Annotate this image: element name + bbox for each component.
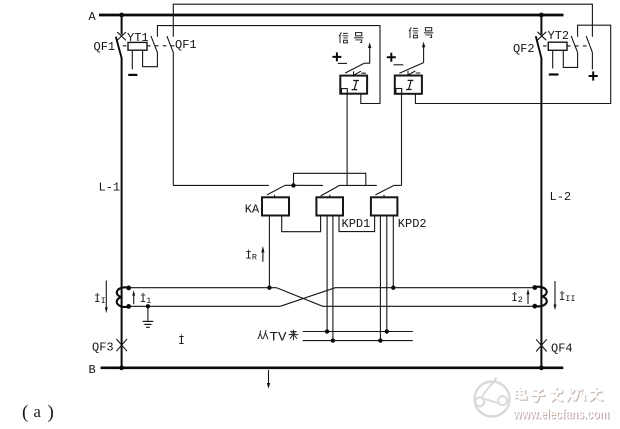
relay contact KPD2 xyxy=(375,185,394,197)
signal relay 1 contact and + terminal xyxy=(332,42,371,75)
label lai (come) xyxy=(289,330,299,341)
breaker QF3 cross mark xyxy=(116,339,127,351)
wire: line L-2 upper segment xyxy=(540,15,542,35)
wire: KPD1 pin to TV upper wire xyxy=(326,216,328,332)
svg-text:KA: KA xyxy=(245,202,260,216)
current transformer TA2 on line L-2 xyxy=(535,287,547,307)
mechanical link dashes QF1 xyxy=(123,45,176,47)
wire: top control wire from QF1 aux to QF2 aux xyxy=(173,4,592,37)
current arrow III (down, right of TA2) xyxy=(554,281,557,310)
relay contact KA xyxy=(267,185,285,197)
trip rail: contact row wire xyxy=(173,184,401,186)
current transformer TA1 on line L-1 xyxy=(117,287,129,307)
svg-text:YT1: YT1 xyxy=(127,31,149,45)
svg-text:L-1: L-1 xyxy=(99,180,121,194)
svg-text:KPD2: KPD2 xyxy=(398,217,427,231)
trip coil YT1 xyxy=(128,42,147,50)
svg-text:İ: İ xyxy=(178,335,185,348)
relay coil KPD2 xyxy=(371,197,398,215)
node: TA1 upper terminal xyxy=(126,286,131,291)
node: ground tap on CT lower wire xyxy=(146,304,150,308)
svg-text:B: B xyxy=(89,363,96,377)
node: KPD2 pin on TV lower wire xyxy=(378,338,382,342)
aux contact QF2 no.1 xyxy=(571,36,577,52)
CT secondary wire lower left xyxy=(129,305,281,307)
aux contact QF1 no.2 xyxy=(167,36,173,185)
signal relay 1 (box with I) xyxy=(340,76,367,94)
current arrow IR (up, left of KA) xyxy=(261,246,264,262)
node: TA2 upper terminal xyxy=(532,285,537,290)
breaker QF2 cross mark xyxy=(537,32,546,40)
wire: KA left pin down to CT wire xyxy=(268,216,270,288)
svg-text:QF2: QF2 xyxy=(513,42,535,56)
label xin-hao (signal) no.2 xyxy=(409,27,433,38)
wire: KPD2 pin to TV lower wire xyxy=(379,216,381,341)
svg-text:QF3: QF3 xyxy=(92,341,114,355)
node: TA1 lower terminal xyxy=(126,304,131,309)
label xin-hao (signal) no.1 xyxy=(339,32,363,43)
svg-text:(: ( xyxy=(22,402,28,423)
bus A xyxy=(99,14,564,17)
wire: KPD2 pin to TV upper wire xyxy=(386,216,388,332)
TV wire upper xyxy=(303,331,413,333)
wire: KA right pin to KPD1 left pin xyxy=(282,216,321,232)
svg-text:QF1: QF1 xyxy=(175,38,197,52)
current arrow II (down, left of TA1) xyxy=(105,281,108,314)
wire: line L-1 lower segment xyxy=(121,58,123,367)
wire: CT crossover down slant xyxy=(277,288,535,307)
aux contact QF1 no.1 xyxy=(143,36,158,67)
svg-text:İI: İI xyxy=(94,293,106,306)
wire: KPD1 pin to TV lower wire xyxy=(332,216,334,341)
svg-text:L-2: L-2 xyxy=(550,190,572,204)
svg-text:İII: İII xyxy=(559,291,576,304)
wire: control wire 2 right (YT2 supply via signal relay 2) xyxy=(415,25,610,103)
breaker QF4 cross mark xyxy=(536,339,547,351)
mechanical link dashes QF2 xyxy=(543,45,590,47)
svg-text:a: a xyxy=(34,402,42,421)
node: KA pin on CT wire xyxy=(267,286,271,290)
wire: bypass rail above contact row xyxy=(294,173,366,185)
wire: KPD1 right pin to KPD2 left pin xyxy=(339,216,375,232)
wire: YT2 right pin to QF2 aux contact 1 xyxy=(563,50,577,67)
negative terminal at YT2 xyxy=(549,73,559,75)
signal relay 2 contact and + terminal xyxy=(387,42,426,76)
negative terminal at YT1 xyxy=(128,74,137,76)
svg-text:TV: TV xyxy=(270,330,288,344)
svg-text:KPD1: KPD1 xyxy=(342,217,371,231)
signal relay 2 (box with I) xyxy=(395,76,422,94)
feeder arrow below bus B xyxy=(267,370,270,389)
watermark: www.elecfans.com xyxy=(512,406,610,422)
svg-text:YT2: YT2 xyxy=(548,29,570,43)
CT secondary wire upper left xyxy=(129,287,277,289)
TV wire lower xyxy=(303,340,413,342)
svg-text:İR: İR xyxy=(245,249,257,262)
svg-text:A: A xyxy=(89,10,97,24)
wire: KPD2 right pin down to CT wire xyxy=(392,216,394,288)
wire: YT2 left pin xyxy=(552,50,554,68)
current arrow I1 (up, at TA1) xyxy=(132,290,135,304)
node: KPD2 pin on TV upper wire xyxy=(385,329,389,333)
breaker QF1 cross mark xyxy=(117,32,126,40)
figure label (a) xyxy=(22,402,54,423)
svg-text:İ1: İ1 xyxy=(140,293,152,306)
wire: control wire 2 left (YT1 supply) xyxy=(157,26,380,104)
svg-text:İ2: İ2 xyxy=(511,292,523,305)
svg-text:www.elecfans.com: www.elecfans.com xyxy=(512,406,609,421)
wire: line L-2 lower segment xyxy=(540,58,542,367)
node: bus B / line L-1 junction xyxy=(119,365,124,370)
breaker QF1 blade xyxy=(116,37,122,59)
node: KPD1 pin on TV upper wire xyxy=(325,329,329,333)
relay coil KA xyxy=(262,197,289,215)
wire: line L-1 upper segment xyxy=(121,15,123,35)
node: bus A / line L-2 junction xyxy=(539,13,544,18)
node: bus A / line L-1 junction xyxy=(119,13,124,18)
node: bus B / line L-2 junction xyxy=(539,365,544,370)
wire: YT1 left pin xyxy=(131,50,133,69)
relay coil KPD1 xyxy=(316,197,343,215)
wire: signal relay 1 left pin down to trip rail xyxy=(346,94,348,186)
current arrow I2 (up, at TA2) xyxy=(527,289,530,304)
wire: CT crossover up slant xyxy=(280,288,535,307)
svg-text:QF1: QF1 xyxy=(94,40,116,54)
node: trip rail junction xyxy=(291,183,295,187)
aux contact QF2 no.2 xyxy=(586,36,592,69)
node: TA2 lower terminal xyxy=(532,304,537,309)
ground xyxy=(143,306,154,327)
wire: signal relay 2 left pin down to trip rail xyxy=(401,94,403,186)
relay contact KPD1 xyxy=(321,185,340,197)
label cong (from) xyxy=(258,330,268,339)
bus B xyxy=(101,366,564,369)
watermark: elecfans logo circle xyxy=(475,378,510,417)
breaker QF2 blade xyxy=(536,36,542,59)
trip coil YT2 xyxy=(548,42,567,50)
node: KPD2 pin on CT wire xyxy=(391,286,395,290)
svg-text:): ) xyxy=(48,402,54,423)
svg-text:QF4: QF4 xyxy=(551,342,573,356)
node: KPD1 pin on TV lower wire xyxy=(331,338,335,342)
positive terminal at QF2 aux xyxy=(589,71,598,80)
